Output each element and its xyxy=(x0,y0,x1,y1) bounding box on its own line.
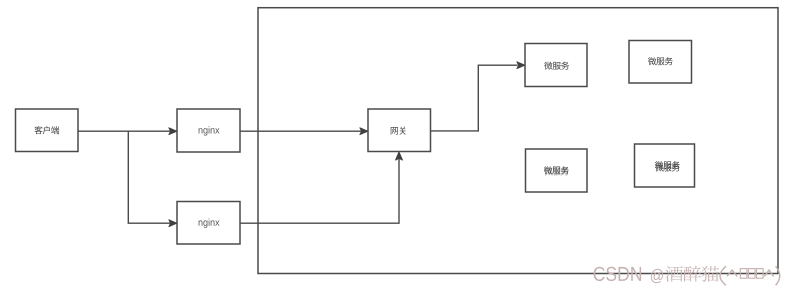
box microservice MS2 xyxy=(629,41,692,84)
watermark caret 1 xyxy=(727,270,736,276)
box gateway (网关) xyxy=(368,109,431,152)
label 微服务 MS2 xyxy=(648,57,673,65)
wire junction drop from client line to nginx2 xyxy=(128,131,170,223)
watermark caret 2 xyxy=(765,270,774,276)
watermark tofu box 1 xyxy=(740,269,747,279)
wire nginx1 to gateway xyxy=(240,130,361,132)
wire gateway to MS1 xyxy=(431,65,518,131)
label 微服务 MS1 xyxy=(544,62,569,70)
label 微服务 MS4 copy2 xyxy=(655,163,680,171)
watermark tofu box 2 xyxy=(748,269,755,279)
label nginx (top box) xyxy=(199,126,220,135)
arrowhead into MS1 xyxy=(517,62,525,69)
box microservice MS4 xyxy=(635,144,695,187)
label 网关 xyxy=(391,127,406,135)
arrowhead into gateway bottom (pointing up) xyxy=(396,152,403,160)
box microservice MS3 xyxy=(526,149,588,192)
label nginx (bottom box) xyxy=(199,219,220,228)
watermark open paren xyxy=(720,266,726,285)
label 客户端 xyxy=(34,126,59,134)
box client (客户端) xyxy=(16,109,79,152)
box microservice MS1 xyxy=(525,44,587,87)
wire nginx2 to gateway bottom xyxy=(240,159,399,224)
watermark close paren xyxy=(776,266,780,285)
arrowhead into nginx1 xyxy=(169,128,177,135)
watermark text CSDN xyxy=(594,267,642,281)
label 微服务 MS4 copy1 xyxy=(655,161,680,169)
box nginx2 xyxy=(177,202,240,245)
container rectangle (microservices boundary) xyxy=(258,8,778,274)
box nginx1 xyxy=(177,109,240,152)
watermark tofu box 3 xyxy=(757,269,764,279)
label 微服务 MS3 copy1 xyxy=(544,166,569,174)
wire client to nginx1 xyxy=(78,130,171,132)
label 微服务 MS3 copy2 xyxy=(544,167,569,175)
watermark 酒醉猫 xyxy=(665,266,719,282)
arrowhead into gateway left xyxy=(360,128,368,135)
arrowhead into nginx2 xyxy=(169,220,177,227)
watermark @ xyxy=(651,269,663,283)
